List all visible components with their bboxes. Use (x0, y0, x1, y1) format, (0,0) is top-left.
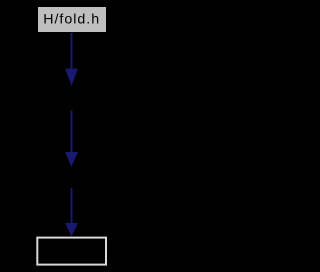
node empty (37, 238, 106, 265)
wire edge3 (65, 188, 78, 236)
svg-text:H/fold.h: H/fold.h (43, 12, 100, 28)
node H/fold.h (38, 7, 107, 33)
wire edge1 (65, 33, 78, 86)
wire edge2 (65, 111, 78, 167)
